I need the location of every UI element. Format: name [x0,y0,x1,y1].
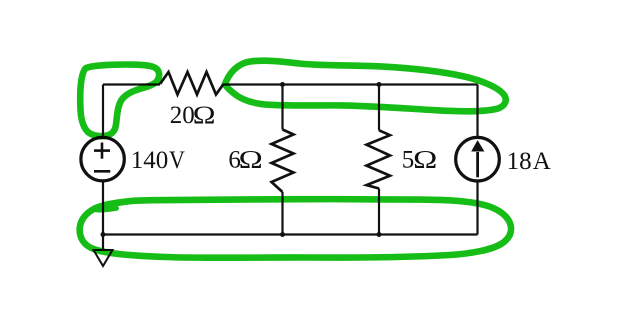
wire left vertical bottom [102,181,104,250]
ground symbol [94,250,113,266]
svg-text:Ω: Ω [193,102,216,130]
label 140V [131,147,185,175]
annotation green loop top-right [225,61,506,112]
voltage source minus sign [94,170,110,173]
label 18A [507,148,551,175]
wire right vertical top [476,85,478,138]
svg-text:18: 18 [507,148,532,175]
svg-text:Ω: Ω [239,146,263,174]
wire top-left horizontal segment [103,83,160,85]
svg-text:A: A [533,148,551,175]
svg-text:V: V [169,147,185,175]
node dot bottom-left [101,232,106,237]
node dot bottom 5ohm [377,232,382,237]
wire right vertical bottom [476,181,478,235]
wire 6ohm top [281,85,283,130]
label 6Ω [228,146,262,174]
wire 5ohm bottom [378,189,380,235]
wire 5ohm top [378,85,380,131]
node dot top 6ohm [280,82,285,87]
current source 18A circle [456,137,500,181]
label 5Ω [402,146,437,174]
voltage source plus sign [94,143,110,159]
annotation green loop bottom [80,199,511,258]
annotation green pen tail stub [96,208,117,210]
wire top horizontal segment right of resistor [224,83,478,85]
current source arrow [471,140,484,177]
wire bottom horizontal [103,233,478,235]
svg-text:20: 20 [170,102,195,129]
node dot bottom 6ohm [280,232,285,237]
svg-text:140: 140 [131,147,169,174]
resistor 6Ω zigzag [272,130,294,193]
resistor 20Ω zigzag [160,72,224,95]
resistor 5Ω zigzag [367,130,391,188]
voltage source 140V circle [81,137,124,180]
label 20Ω [170,102,216,130]
svg-text:Ω: Ω [413,146,437,174]
wire 6ohm bottom [281,192,283,235]
annotation green loop top-left [80,65,159,137]
node dot top 5ohm [377,82,382,87]
wire left vertical top [102,85,104,138]
